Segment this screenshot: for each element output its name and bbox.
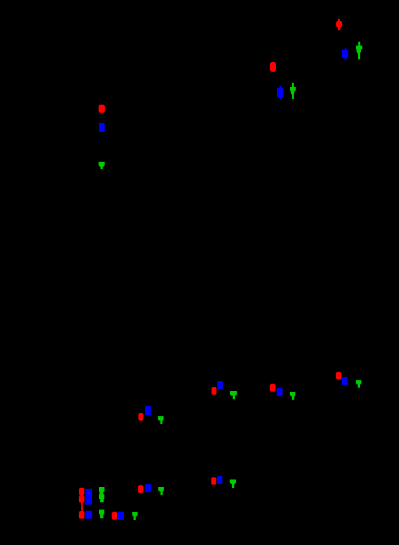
atom F9 (green label with half-bond) [132,512,137,520]
atom F10 (green label with half-bond) [158,487,164,495]
atom F7 (green label with half-bond) [158,416,164,424]
atom O8b [79,495,85,503]
atom N8 [85,489,92,505]
atom O10 [138,485,144,493]
atom N9 [118,512,124,520]
half-bond into N2 (blue) [279,86,281,88]
atom N5 [277,388,283,396]
atom O7 [138,413,143,421]
atom N3 [99,123,105,132]
atom O11 [211,477,216,485]
atom N4 [217,381,223,389]
atom N8b [85,511,92,519]
atom F5 (green label with half-bond) [290,392,295,400]
atom O4 [212,387,217,395]
atom N10 [145,484,151,492]
atom O8a [79,488,84,496]
atom F4 (green label with half-bond) [230,391,237,399]
half-bond into O1 (red) [338,19,340,22]
atom F11 (green label with half-bond) [230,480,236,489]
atom F8b (green label with half-bond) [99,510,104,519]
atom O1 [336,21,342,28]
atom N1 [342,50,348,58]
atom N6 [342,377,348,385]
atom N7 [145,406,151,415]
atom N11 [217,476,222,484]
atom O9 [112,512,118,520]
bond O8b-O8c (red) [81,502,83,511]
atom F3 (green label with half-bond) [99,162,105,169]
atom O3 [99,105,105,113]
atom N2 [277,88,283,98]
atom F6 (green label with half-bond) [356,380,362,388]
half-bond out of N1 (blue) [345,58,347,60]
atom Cl1 (green label with half-bonds) [356,42,362,60]
atom O8c [79,511,85,519]
half-bond out of N2 (blue) [279,97,281,99]
atom O5 [270,384,276,392]
half-bond into N1 (blue) [345,48,347,50]
atom O2 [270,62,276,72]
atom O6 [336,372,342,380]
half-bond out of O1 (red) [338,27,340,30]
atom F8a (green double label) [99,487,105,502]
atom Cl2 (green label with half-bonds) [290,83,296,99]
